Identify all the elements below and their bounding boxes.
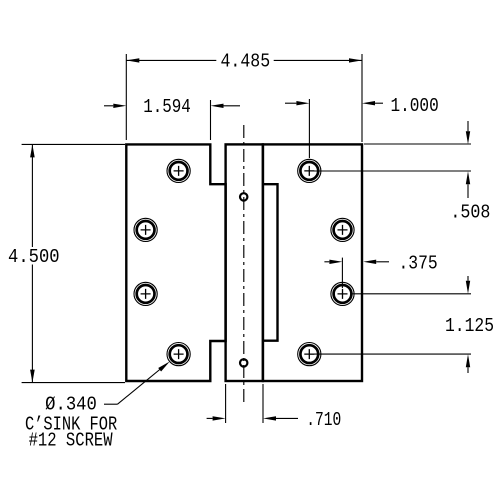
pin hole bottom: [240, 359, 247, 366]
right leaf outline: [263, 144, 362, 381]
svg-text:#12 SCREW: #12 SCREW: [29, 429, 113, 451]
dimension 4.500 left: [8, 144, 125, 382]
screw hole R4: [298, 343, 321, 366]
pin hole top: [240, 193, 247, 200]
dimension .710 bottom: [207, 384, 342, 431]
dimension .375 right: [324, 253, 437, 288]
svg-text:4.500: 4.500: [8, 246, 60, 268]
svg-text:.508: .508: [450, 202, 490, 224]
dimension 1.000: [285, 95, 439, 158]
centerline: [243, 125, 245, 405]
dimension 4.485 top: [126, 51, 362, 142]
screw hole L3: [134, 282, 157, 305]
right leaf inner cutout: [263, 184, 278, 341]
screw hole L1: [167, 159, 190, 182]
dimension 1.125 right: [309, 276, 494, 373]
svg-text:4.485: 4.485: [220, 51, 270, 73]
screw hole L2: [134, 218, 157, 241]
svg-text:.375: .375: [399, 253, 438, 275]
screw hole R2: [331, 218, 354, 241]
screw hole L4: [167, 343, 190, 366]
screw hole R1: [298, 159, 321, 182]
screw hole R3: [331, 282, 354, 305]
leader countersink note: [45, 362, 170, 416]
svg-text:1.594: 1.594: [143, 96, 191, 118]
svg-text:.710: .710: [306, 409, 341, 431]
barrel strip: [226, 144, 263, 381]
svg-text:1.125: 1.125: [445, 315, 494, 337]
dimension 1.594: [104, 96, 240, 140]
svg-text:1.000: 1.000: [390, 95, 438, 117]
dimension .508 right: [313, 121, 490, 224]
left leaf outline: [126, 144, 225, 381]
svg-text:Ø.340: Ø.340: [45, 393, 97, 415]
